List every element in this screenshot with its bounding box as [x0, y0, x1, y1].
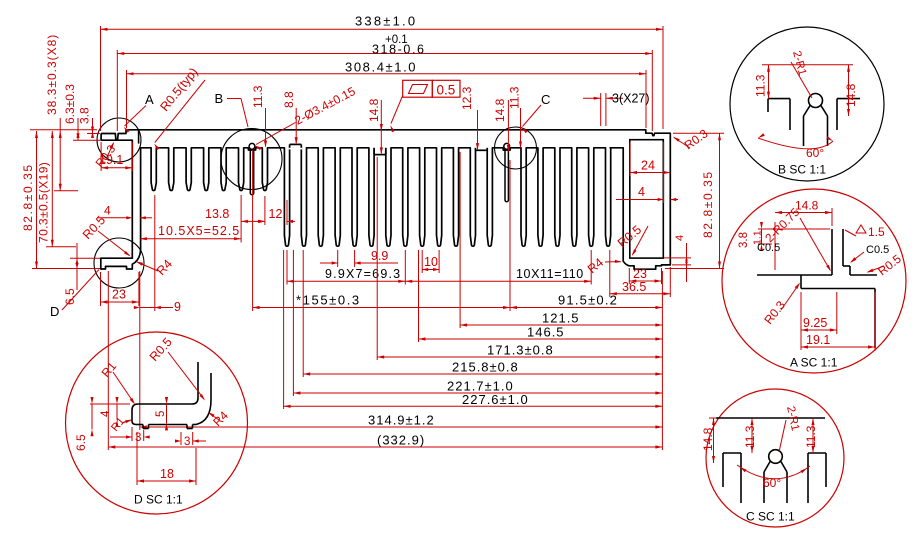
leader R0.5 typ [155, 80, 205, 143]
svg-text:3: 3 [184, 436, 190, 448]
ext lines top dims [100, 26, 102, 131]
dim 121.5 [460, 324, 662, 326]
detail B dimensions [762, 64, 853, 66]
svg-text:82.8±0.35: 82.8±0.35 [21, 163, 35, 231]
svg-text:13.8: 13.8 [205, 207, 229, 221]
svg-text:14.8: 14.8 [367, 98, 381, 122]
svg-text:23: 23 [633, 267, 647, 281]
dim *155±0.3 [253, 307, 510, 309]
left ext lines [30, 129, 97, 131]
dim 171.3±0.8 [377, 356, 662, 358]
svg-text:10X11=110: 10X11=110 [516, 267, 584, 281]
dim 24 [629, 142, 631, 176]
svg-text:171.3±0.8: 171.3±0.8 [487, 343, 554, 358]
dim 91.5±0.2 [510, 307, 662, 309]
dim 11.3 (slot depth near B) [265, 108, 267, 147]
svg-text:215.8±0.8: 215.8±0.8 [452, 360, 519, 375]
dim 6.3±0.3 [77, 118, 79, 140]
svg-text:14.8: 14.8 [844, 83, 858, 107]
ext 332.9 [107, 271, 109, 450]
dim 19.1 [100, 142, 102, 171]
svg-text:82.8±0.35: 82.8±0.35 [701, 170, 715, 238]
ext 314.9 [139, 271, 141, 430]
detail A circle [722, 189, 906, 373]
svg-text:4: 4 [100, 410, 112, 417]
dim (332.9) [108, 446, 662, 448]
svg-text:60°: 60° [806, 146, 824, 160]
dim 10X11=110 [590, 250, 592, 285]
dim 215.8±0.8 [303, 373, 662, 375]
svg-text:C0.5: C0.5 [757, 242, 780, 254]
detail circle D marker (foot) [94, 238, 144, 288]
svg-text:11.3: 11.3 [743, 425, 757, 448]
dim 8.8 [295, 108, 297, 143]
svg-text:11.3: 11.3 [804, 425, 818, 448]
svg-text:(332.9): (332.9) [377, 433, 425, 448]
dim 11.3 right of C [520, 108, 522, 148]
svg-text:B: B [215, 91, 224, 106]
dim 314.9±1.2 [140, 426, 663, 428]
svg-text:A: A [145, 92, 154, 107]
dim 12.3 [477, 110, 479, 149]
dim 23 right [628, 268, 630, 284]
svg-text:8.8: 8.8 [282, 91, 296, 108]
dim 338±1.0 [101, 28, 664, 30]
ext 221.7 [292, 250, 294, 396]
detail D circle [66, 332, 248, 514]
svg-text:11.3: 11.3 [754, 74, 768, 97]
svg-text:A SC 1:1: A SC 1:1 [790, 356, 838, 370]
dim 12 [286, 200, 288, 225]
ext 215.8 [302, 250, 304, 377]
svg-text:C: C [541, 92, 550, 107]
svg-text:5: 5 [155, 411, 167, 417]
svg-text:C SC 1:1: C SC 1:1 [746, 510, 795, 524]
detail C profile shape [716, 417, 825, 419]
hook inner rib line [138, 130, 140, 144]
right block hollow chamber [630, 140, 664, 258]
dim 13.8 [264, 196, 266, 225]
svg-text:23: 23 [112, 288, 126, 302]
dim 318 +0.1 -0.6 [117, 53, 652, 55]
ext line hole C down [509, 160, 511, 311]
svg-text:14.8: 14.8 [701, 427, 715, 451]
svg-text:B SC 1:1: B SC 1:1 [778, 163, 826, 177]
dim 3 (X27) fin width [600, 93, 602, 126]
svg-text:9.9X7=69.3: 9.9X7=69.3 [325, 267, 401, 281]
dim 4 right wall [663, 142, 665, 203]
hole B keyhole slot (2-Ø3.4) [249, 143, 255, 149]
svg-text:14.8: 14.8 [795, 199, 819, 213]
detail circle C marker [495, 127, 537, 169]
dim 9 [140, 307, 173, 309]
ext 146.5 [418, 250, 420, 342]
dim 70.3±0.5(X19) [51, 131, 53, 247]
detail circle B marker [221, 129, 282, 190]
svg-text:12: 12 [269, 207, 283, 221]
dim 4 wall [97, 217, 128, 219]
svg-text:91.5±0.2: 91.5±0.2 [558, 293, 618, 308]
ext line hole B down [252, 150, 254, 311]
svg-text:12.3: 12.3 [460, 86, 474, 110]
svg-text:0.5: 0.5 [437, 83, 456, 98]
svg-text:6.3±0.3: 6.3±0.3 [63, 84, 77, 124]
svg-text:C0.5: C0.5 [866, 244, 889, 256]
detail C dimensions [709, 417, 716, 419]
detail A dimensions [774, 222, 776, 270]
svg-text:38.3±0.3(X8): 38.3±0.3(X8) [45, 34, 59, 115]
svg-text:*155±0.3: *155±0.3 [296, 293, 361, 308]
ext 121.5 [459, 152, 461, 328]
svg-text:D: D [50, 304, 59, 319]
hole C keyhole slot [504, 143, 510, 149]
svg-text:318-0.6: 318-0.6 [372, 43, 426, 57]
detail B profile shape [768, 98, 790, 100]
dim 146.5 [419, 338, 663, 340]
detail D profile shape [197, 362, 199, 398]
detail B circle [730, 27, 884, 181]
dim 82.8±0.35 left [36, 131, 38, 269]
svg-text:11.3: 11.3 [508, 86, 522, 109]
dim 82.8±0.35 right [673, 132, 724, 134]
svg-text:9.9: 9.9 [371, 249, 388, 263]
svg-text:3(X27): 3(X27) [612, 92, 650, 106]
dim 23 left [100, 272, 102, 306]
svg-text:10: 10 [424, 255, 438, 269]
svg-text:314.9±1.2: 314.9±1.2 [368, 413, 435, 428]
right ext line bottom stack [661, 271, 663, 450]
ext 227.6 [283, 250, 285, 409]
svg-text:10.5X5=52.5: 10.5X5=52.5 [158, 224, 240, 238]
svg-text:18: 18 [160, 467, 174, 481]
svg-text:308.4±1.0: 308.4±1.0 [345, 60, 417, 75]
detail circle A marker (hook) [97, 118, 141, 162]
dim 227.6±1.0 [284, 405, 663, 407]
dim 10 [421, 250, 423, 273]
svg-text:4: 4 [674, 235, 686, 241]
svg-text:227.6±1.0: 227.6±1.0 [462, 392, 529, 407]
svg-text:70.3±0.5(X19): 70.3±0.5(X19) [37, 162, 51, 243]
svg-text:9: 9 [174, 300, 181, 314]
svg-text:3: 3 [135, 432, 141, 444]
dim 221.7±1.0 [293, 392, 662, 394]
svg-text:6.5: 6.5 [74, 434, 88, 451]
svg-text:11.3: 11.3 [251, 85, 265, 108]
svg-text:9.25: 9.25 [803, 316, 827, 330]
svg-text:4: 4 [638, 185, 645, 199]
svg-text:338±1.0: 338±1.0 [355, 14, 417, 29]
svg-text:D SC 1:1: D SC 1:1 [134, 493, 183, 507]
dim 9.9X7=69.3 [286, 250, 288, 285]
dim 4 right foot [664, 257, 691, 259]
dim 9.9 [337, 250, 339, 267]
dim 308.4±1.0 [127, 73, 647, 75]
dim 36.5 [609, 250, 611, 297]
dim 38.3±0.3(X8) [59, 118, 61, 191]
ext 171.3 [376, 157, 378, 360]
dim 14.8 deep slot [380, 100, 382, 153]
svg-text:4: 4 [104, 204, 111, 218]
dim 14.8 at hole C [507, 100, 509, 151]
svg-text:36.5: 36.5 [622, 280, 646, 294]
dim 6.5 left [76, 243, 78, 290]
dim 10.5X5=52.5 [240, 195, 242, 243]
leader 2-Ø3.4±0.15 [256, 123, 296, 145]
flatness frame 0.5 [403, 80, 433, 97]
svg-text:121.5: 121.5 [542, 311, 580, 326]
svg-text:14.8: 14.8 [493, 98, 507, 122]
svg-text:1.5: 1.5 [868, 225, 885, 239]
special slot floors (14.8 / 8.8 / 12.3 depth slots) [373, 146, 387, 149]
heatsink profile outline [101, 130, 671, 269]
svg-text:3.8: 3.8 [738, 232, 750, 248]
svg-text:146.5: 146.5 [527, 325, 565, 340]
detail C circle [706, 389, 844, 527]
svg-text:60°: 60° [763, 476, 781, 490]
dim 3.8 [92, 118, 94, 134]
svg-text:19.1: 19.1 [806, 333, 830, 347]
svg-text:24: 24 [641, 159, 655, 173]
svg-text:3.8: 3.8 [78, 107, 92, 124]
detail A profile shape [757, 274, 832, 276]
